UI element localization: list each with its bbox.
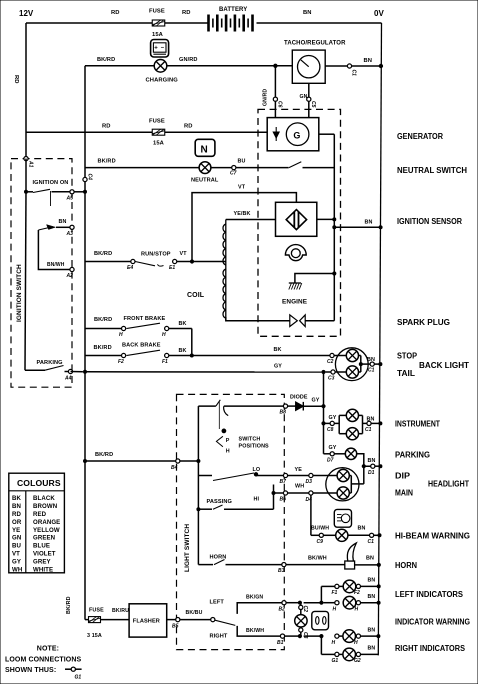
generator dashed enclosure	[258, 109, 341, 336]
svg-text:BK: BK	[12, 495, 22, 502]
loom connector C7	[230, 166, 237, 177]
parking switch pole	[25, 360, 68, 372]
loom connector D1	[368, 464, 375, 476]
svg-text:GN/RD: GN/RD	[179, 57, 198, 63]
ignition switch dashed enclosure	[11, 159, 72, 388]
left indicator lamp rear	[343, 596, 356, 609]
wire stop/tail join to 0V BN	[359, 356, 382, 373]
wire GN drop tacho to generator	[300, 83, 309, 117]
loom connector A4	[64, 369, 73, 381]
wire 12V rail inside ignition box	[25, 159, 27, 192]
svg-text:BN: BN	[12, 503, 21, 510]
svg-text:BN: BN	[368, 646, 376, 652]
loom connector H left-rear-right	[355, 601, 361, 613]
loom connector B7	[280, 473, 288, 485]
wire B4 feed row BK/RD	[85, 452, 198, 461]
svg-text:RD: RD	[102, 124, 111, 130]
svg-text:H: H	[119, 332, 123, 338]
svg-text:N: N	[201, 144, 208, 155]
battery icon above charging lamp	[151, 40, 169, 58]
headlight housing	[326, 468, 359, 501]
svg-text:YE: YE	[295, 467, 303, 473]
svg-text:BK/WH: BK/WH	[246, 628, 264, 634]
svg-text:BN: BN	[368, 594, 376, 600]
fuse F3 3.15A	[87, 608, 104, 640]
indicator switch blade	[215, 620, 235, 625]
wire warning lamp bottom branch	[298, 627, 301, 638]
svg-text:LEFT: LEFT	[210, 600, 225, 606]
svg-text:BN: BN	[368, 458, 376, 464]
svg-text:BK/RD: BK/RD	[97, 57, 115, 63]
loom connector D3	[306, 473, 314, 485]
svg-text:ORANGE: ORANGE	[33, 519, 60, 526]
svg-text:VT: VT	[180, 251, 188, 257]
svg-text:C4: C4	[87, 174, 93, 181]
wire flasher to B5	[167, 619, 176, 621]
wire parking feed GY	[324, 445, 337, 454]
svg-text:BK/RU: BK/RU	[112, 608, 129, 614]
svg-text:BU: BU	[238, 159, 246, 165]
svg-text:NEUTRAL SWITCH: NEUTRAL SWITCH	[397, 166, 467, 175]
wire charging row BK/RD from bus	[85, 57, 154, 66]
wire sensor to engine common	[317, 218, 336, 221]
switch position selector	[216, 429, 269, 455]
svg-text:E4: E4	[127, 265, 133, 271]
wire 12V rail to parking switch	[25, 192, 26, 370]
wire D4 branch to hi-beam	[311, 495, 319, 535]
svg-text:BK/RD: BK/RD	[98, 159, 116, 165]
loom connector C3 tail	[328, 370, 335, 382]
svg-text:RD: RD	[13, 75, 19, 84]
svg-text:BN: BN	[368, 628, 376, 634]
neutral warning lamp	[191, 162, 219, 184]
loom connector E4	[127, 259, 135, 271]
left indicator lamp front	[343, 580, 356, 593]
svg-text:C9: C9	[317, 539, 324, 545]
svg-text:E1: E1	[169, 265, 175, 271]
svg-text:COLOURS: COLOURS	[17, 478, 61, 488]
svg-text:C1: C1	[368, 368, 375, 374]
wire engine common to 0V BN	[333, 220, 382, 229]
svg-text:B8: B8	[280, 410, 287, 416]
svg-text:BN: BN	[59, 219, 67, 225]
svg-text:GREEN: GREEN	[33, 535, 55, 542]
label SPARK PLUG	[397, 318, 450, 327]
svg-text:C5: C5	[310, 101, 316, 108]
wire tacho to 0V rail BN	[325, 58, 381, 66]
label GENERATOR	[397, 132, 443, 141]
loom connector G1	[332, 652, 340, 664]
loom connector warning top	[299, 605, 308, 612]
svg-text:BACK LIGHT: BACK LIGHT	[419, 361, 469, 370]
label PARKING	[395, 451, 430, 460]
svg-text:FUSE: FUSE	[149, 119, 165, 125]
svg-text:RD: RD	[184, 124, 193, 130]
wire diode to GY vertical	[303, 398, 325, 408]
svg-text:VT: VT	[238, 185, 246, 191]
wire stop feed BK	[192, 347, 330, 356]
wire left rear to 0V BN	[361, 594, 381, 604]
svg-text:C7: C7	[230, 171, 237, 177]
svg-text:BLACK: BLACK	[33, 495, 55, 502]
svg-text:ENGINE: ENGINE	[282, 299, 308, 306]
svg-text:F2: F2	[118, 359, 124, 365]
wire run/stop to coil VT	[141, 251, 226, 262]
back brake switch blade	[122, 343, 161, 356]
loom connector A3	[66, 225, 75, 237]
svg-text:D1: D1	[368, 470, 375, 476]
headlight return join	[349, 466, 364, 493]
wire horn to 0V BN	[355, 556, 381, 567]
svg-text:H: H	[355, 607, 359, 613]
svg-text:GN: GN	[12, 535, 21, 542]
light switch internal bus	[197, 406, 200, 564]
svg-text:STOP: STOP	[397, 352, 418, 361]
svg-text:CHARGING: CHARGING	[146, 78, 179, 84]
svg-text:GENERATOR: GENERATOR	[397, 132, 443, 141]
svg-text:BN: BN	[365, 220, 373, 226]
svg-text:BK/RD: BK/RD	[94, 251, 112, 257]
svg-text:G2: G2	[354, 658, 361, 664]
svg-text:C3: C3	[328, 376, 335, 382]
right indicator lamp rear	[343, 648, 356, 661]
spark plug gap symbol	[290, 315, 305, 327]
ignition switch ON pole	[25, 180, 86, 206]
node 12V supply label	[19, 9, 34, 18]
svg-text:F1: F1	[162, 359, 168, 365]
svg-text:GY: GY	[329, 445, 337, 451]
svg-text:TAIL: TAIL	[397, 369, 415, 378]
loom connector F2 back-brake	[118, 353, 126, 365]
svg-text:RD: RD	[182, 10, 191, 16]
wire HI row WH	[288, 484, 309, 494]
loom connector G2	[354, 652, 361, 664]
svg-text:HEADLIGHT: HEADLIGHT	[428, 480, 469, 489]
svg-text:LEFT INDICATORS: LEFT INDICATORS	[395, 590, 464, 599]
svg-text:HI-BEAM WARNING: HI-BEAM WARNING	[395, 532, 470, 541]
svg-text:IGNITION ON: IGNITION ON	[33, 180, 69, 186]
svg-text:BK/RD: BK/RD	[66, 596, 72, 614]
label INSTRUMENT	[395, 420, 440, 429]
svg-text:GY: GY	[329, 415, 337, 421]
svg-text:H: H	[226, 449, 230, 455]
indicator warning lamp	[295, 615, 307, 627]
svg-text:NEUTRAL: NEUTRAL	[191, 178, 219, 184]
svg-text:TACHO/REGULATOR: TACHO/REGULATOR	[284, 41, 346, 47]
junction charging GN/RD	[274, 64, 277, 67]
svg-text:RIGHT INDICATORS: RIGHT INDICATORS	[395, 644, 466, 653]
svg-text:BU/WH: BU/WH	[311, 526, 329, 532]
svg-text:WHITE: WHITE	[33, 566, 53, 573]
ignition switch second pole	[38, 219, 70, 230]
svg-text:BK/BU: BK/BU	[186, 610, 203, 616]
parking position contact	[198, 400, 283, 429]
svg-text:BK/RD: BK/RD	[94, 345, 112, 351]
loom connector indicator switch	[211, 618, 215, 622]
loom connector F1 back-brake	[162, 353, 169, 365]
svg-text:GY: GY	[12, 558, 21, 565]
horn	[345, 543, 357, 569]
wire right ind feed	[285, 635, 335, 655]
svg-text:B3: B3	[278, 568, 285, 574]
tail lamp	[335, 366, 358, 378]
svg-text:H: H	[354, 640, 358, 646]
wire left front to 0V BN	[339, 578, 380, 588]
right indicator lamp front	[343, 630, 356, 643]
svg-text:WH: WH	[295, 484, 304, 490]
svg-text:OR: OR	[12, 519, 22, 526]
svg-text:A1: A1	[28, 160, 34, 168]
svg-text:15A: 15A	[153, 141, 165, 147]
loom connector D7	[327, 452, 334, 464]
wire parking/tail row	[71, 364, 331, 373]
svg-text:BN: BN	[303, 10, 312, 16]
svg-text:–: –	[161, 45, 165, 51]
label IGNITION SENSOR	[397, 217, 462, 226]
svg-text:HORN: HORN	[395, 561, 417, 570]
label HORN	[395, 561, 417, 570]
wire warning lamp top branch	[300, 603, 302, 615]
svg-text:BN: BN	[364, 58, 373, 64]
svg-text:SPARK PLUG: SPARK PLUG	[397, 318, 450, 327]
svg-text:PARKING: PARKING	[37, 360, 63, 366]
svg-text:IGNITION SENSOR: IGNITION SENSOR	[397, 217, 462, 226]
svg-text:P: P	[226, 438, 230, 444]
svg-text:C1: C1	[351, 70, 357, 77]
svg-text:0V: 0V	[374, 9, 384, 18]
battery	[209, 7, 253, 32]
wire charging lamp to tacho GN/RD	[167, 57, 292, 66]
loom connector C2 stop	[327, 353, 334, 365]
wire B8 to diode	[288, 405, 296, 407]
svg-text:SWITCH: SWITCH	[239, 437, 261, 443]
wire run/stop row BK/RD	[85, 251, 131, 262]
svg-text:BATTERY: BATTERY	[219, 7, 247, 13]
loom connector C6	[273, 97, 282, 108]
svg-text:D7: D7	[327, 458, 334, 464]
svg-text:BN: BN	[366, 556, 374, 562]
label HI-BEAM WARNING	[395, 532, 470, 541]
wire battery to 0V rail BN	[257, 10, 382, 23]
trigger rotor	[285, 245, 306, 261]
node 0V supply label	[374, 9, 384, 18]
svg-text:B1: B1	[277, 640, 284, 646]
svg-text:BACK BRAKE: BACK BRAKE	[122, 343, 161, 349]
svg-text:INSTRUMENT: INSTRUMENT	[395, 420, 440, 429]
wire generator to engine-common	[319, 133, 335, 135]
svg-text:12V: 12V	[19, 9, 34, 18]
label LEFT INDICATORS	[395, 590, 464, 599]
tacho/regulator U1	[284, 41, 346, 84]
svg-text:BN: BN	[358, 526, 366, 532]
svg-text:RD: RD	[12, 511, 22, 518]
svg-text:F2: F2	[354, 590, 360, 596]
svg-text:A4: A4	[64, 376, 72, 382]
loom connector E1	[169, 259, 177, 271]
loom connector A1 on 12V rail	[24, 157, 34, 168]
svg-text:BLUE: BLUE	[33, 543, 50, 550]
wire right front to 0V BN	[339, 628, 380, 638]
svg-text:C1: C1	[368, 539, 375, 545]
wire front brake to join BK	[169, 321, 192, 329]
svg-text:BK/GN: BK/GN	[246, 595, 263, 601]
svg-text:G1: G1	[332, 658, 339, 664]
instrument lamps join	[359, 415, 382, 433]
wire 12V top rail RD	[26, 10, 208, 23]
svg-text:BK: BK	[179, 321, 187, 327]
svg-text:LOOM CONNECTIONS: LOOM CONNECTIONS	[5, 656, 81, 663]
indicator switch LEFT contact	[210, 595, 283, 614]
colours legend box	[9, 473, 65, 573]
wire right rear to 0V BN	[339, 646, 378, 655]
loom connector H front-brake-right	[162, 326, 169, 338]
wire GN/RD drop to generator	[263, 66, 276, 118]
wire coil top YE/BK to sensor	[226, 211, 276, 220]
loom connector B2	[279, 601, 287, 613]
label DIP MAIN HEADLIGHT	[395, 472, 469, 498]
loom connector warning bottom	[299, 628, 308, 639]
svg-text:A3: A3	[66, 231, 74, 237]
junction bus ignition feed	[84, 190, 87, 193]
wire neutral row BK/RD	[85, 159, 199, 168]
wire C9 to hi-beam lamp BU/WH	[311, 526, 336, 536]
passing switch	[197, 492, 275, 511]
loom connector B1	[277, 634, 285, 646]
svg-text:BK: BK	[179, 348, 187, 354]
svg-text:GN/RD: GN/RD	[263, 89, 269, 106]
svg-text:POSITIONS: POSITIONS	[239, 443, 270, 449]
svg-text:YELLOW: YELLOW	[33, 527, 60, 534]
svg-text:15A: 15A	[152, 32, 164, 38]
svg-text:GY: GY	[312, 398, 320, 404]
svg-text:PARKING: PARKING	[395, 451, 430, 460]
junction bus parking row	[84, 370, 87, 373]
svg-text:SHOWN THUS:: SHOWN THUS:	[5, 667, 56, 674]
label RIGHT INDICATORS	[395, 644, 466, 653]
svg-text:WH: WH	[12, 566, 22, 573]
loom connector B3	[278, 563, 286, 575]
svg-text:YE/BK: YE/BK	[234, 211, 251, 217]
svg-text:BK: BK	[274, 347, 282, 353]
wire parking lamp to D1	[357, 454, 382, 468]
svg-text:C8: C8	[327, 427, 334, 433]
wire main BK/RD bus vertical	[84, 66, 86, 620]
svg-text:B7: B7	[280, 479, 287, 485]
svg-text:A2: A2	[66, 273, 74, 279]
label NEUTRAL SWITCH	[397, 166, 467, 175]
loom connector H right-front	[332, 634, 340, 646]
loom connector C4 on bus	[83, 174, 93, 182]
svg-text:INDICATOR WARNING: INDICATOR WARNING	[395, 618, 470, 627]
svg-text:GREY: GREY	[33, 558, 51, 565]
loom connector B4	[171, 459, 180, 471]
note loom connections	[5, 646, 82, 681]
wire 12V left rail upper	[13, 23, 26, 159]
svg-text:PASSING: PASSING	[207, 499, 232, 505]
loom connector H front-brake-left	[119, 326, 126, 338]
loom connector B8	[280, 404, 288, 416]
wire instrument feed GY	[322, 415, 337, 425]
main beam lamp	[313, 487, 349, 499]
svg-text:BK/RD: BK/RD	[94, 317, 112, 323]
svg-text:FLASHER: FLASHER	[133, 619, 160, 625]
loom connector A2	[66, 267, 75, 279]
wire coil bottom to spark plug	[226, 317, 290, 321]
svg-text:BU: BU	[12, 543, 22, 550]
svg-text:H: H	[162, 332, 166, 338]
svg-text:LIGHT SWITCH: LIGHT SWITCH	[184, 524, 191, 572]
dip switch HI contact	[254, 485, 284, 503]
junction bus B4 row	[84, 460, 87, 463]
loom connector C1 backlight	[368, 362, 375, 374]
charging warning lamp	[146, 60, 179, 84]
svg-text:BK/WH: BK/WH	[308, 556, 327, 562]
label INDICATOR WARNING	[395, 618, 470, 627]
loom connector A5	[66, 190, 75, 202]
light switch dashed enclosure	[177, 394, 285, 649]
loom connector H left-rear	[333, 601, 340, 613]
svg-text:HI: HI	[254, 497, 260, 503]
diode D1	[290, 394, 308, 410]
wire horn row BK/WH	[286, 556, 345, 565]
svg-text:IGNITION SWITCH: IGNITION SWITCH	[16, 264, 23, 322]
indicator switch RIGHT contact	[210, 626, 281, 640]
dip beam lamp	[313, 469, 349, 481]
svg-text:C1: C1	[365, 427, 372, 433]
svg-text:H: H	[332, 640, 336, 646]
svg-text:H: H	[333, 607, 337, 613]
svg-text:C3: C3	[302, 632, 308, 639]
hi-beam icon box	[334, 509, 351, 527]
svg-text:DIP: DIP	[395, 472, 411, 481]
junction tail GY branch	[322, 370, 325, 373]
svg-text:C2: C2	[327, 359, 334, 365]
engine ground symbol	[282, 283, 308, 306]
svg-text:B6: B6	[280, 497, 287, 503]
svg-text:RD: RD	[111, 10, 120, 16]
loom connector H right-front-right	[354, 634, 361, 646]
svg-text:3 15A: 3 15A	[87, 633, 102, 639]
svg-text:BN/WH: BN/WH	[47, 262, 65, 268]
loom connector C1 tacho	[347, 64, 356, 76]
svg-text:YE: YE	[12, 527, 20, 534]
fuse F1 15A	[149, 9, 165, 39]
svg-text:NOTE:: NOTE:	[37, 646, 59, 653]
wire LO row YE	[288, 467, 309, 476]
fuse F2 15A	[149, 119, 165, 147]
stop lamp	[334, 349, 358, 361]
label STOP TAIL BACK LIGHT	[397, 352, 469, 379]
svg-text:LO: LO	[253, 467, 261, 473]
svg-text:G: G	[293, 130, 300, 140]
loom connector B6	[280, 491, 288, 503]
horn switch	[198, 555, 281, 565]
loom connector C8	[327, 421, 334, 433]
loom connector C5	[307, 97, 316, 108]
wire A3 loop to A2	[38, 230, 70, 270]
loom connector C1 instrument	[365, 421, 372, 433]
svg-text:B2: B2	[279, 607, 286, 613]
loom connector B5	[172, 618, 180, 630]
wire 0V right rail	[378, 23, 381, 655]
neutral N box	[195, 139, 215, 156]
instrument lamp upper	[346, 409, 358, 421]
svg-text:BROWN: BROWN	[33, 503, 57, 510]
loom connector C9	[317, 533, 324, 545]
wire front brake row BK/RD	[85, 317, 122, 329]
svg-text:FUSE: FUSE	[89, 608, 104, 614]
junction VT branch	[190, 260, 193, 263]
